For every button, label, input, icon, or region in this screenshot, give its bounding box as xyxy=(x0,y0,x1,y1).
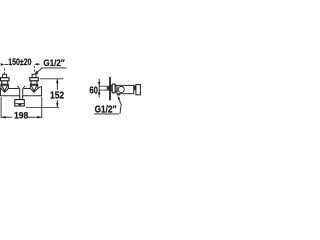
label G1/2 (bottom) underline xyxy=(94,113,119,115)
label G1/2 (top) underline xyxy=(42,67,66,69)
label G1/2 (top) leader xyxy=(36,68,42,73)
label G1/2 (top) leader arrowhead xyxy=(35,71,39,75)
dimension 152 top extension line xyxy=(40,78,64,80)
side view ring xyxy=(115,86,117,92)
dimension 60 line and arrows xyxy=(98,79,101,98)
label G1/2 (bottom) leader arrowhead xyxy=(118,96,121,100)
spout funnel xyxy=(17,86,25,99)
left inlet flange xyxy=(1,78,10,81)
right inlet cap xyxy=(32,74,36,77)
svg-text:G1/2″: G1/2″ xyxy=(43,58,65,69)
svg-text:198: 198 xyxy=(14,110,28,120)
side view knob xyxy=(136,85,141,95)
side view valve circle xyxy=(118,86,124,92)
left elbow union xyxy=(1,84,8,92)
side view wedge between body and knob xyxy=(134,85,136,90)
left inlet cap xyxy=(3,74,7,77)
side view body xyxy=(117,85,134,93)
side view wall xyxy=(109,77,111,100)
side view neck xyxy=(111,86,112,91)
dimension 198 left extension line xyxy=(0,97,2,118)
side view nut xyxy=(112,84,115,93)
left inlet nut xyxy=(2,81,8,84)
svg-text:152: 152 xyxy=(50,90,65,101)
dimension 152 bottom extension line xyxy=(26,106,60,108)
right elbow union xyxy=(30,84,38,92)
dimension 198 line and arrows xyxy=(1,116,42,119)
spout outlet box xyxy=(15,100,24,106)
pipe stub behind wall xyxy=(107,86,109,90)
dimension 150±20 left arrow xyxy=(1,63,8,65)
dimension 152 line and arrows xyxy=(56,79,59,108)
svg-text:60: 60 xyxy=(89,86,98,97)
dimension 198 right extension line xyxy=(41,97,43,118)
supply pipe stub lines xyxy=(99,86,109,90)
label G1/2 (bottom) leader xyxy=(119,99,121,114)
extension line left (dashed) xyxy=(4,68,6,74)
side view outlet stub xyxy=(117,94,120,96)
svg-text:150±20: 150±20 xyxy=(8,57,31,68)
right inlet nut xyxy=(31,81,37,84)
front view body bar xyxy=(1,87,42,96)
right inlet flange xyxy=(30,78,39,81)
extension line right (dashed) xyxy=(34,66,36,73)
svg-text:G1/2″: G1/2″ xyxy=(95,105,117,116)
dimension 150±20 right arrow xyxy=(34,63,40,66)
